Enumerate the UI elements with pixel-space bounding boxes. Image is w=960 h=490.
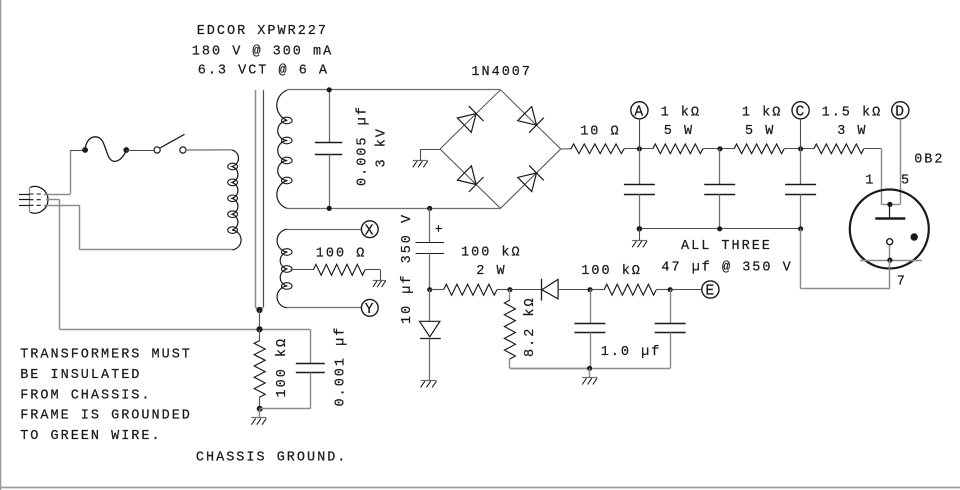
tube cathode stem	[889, 245, 891, 260]
svg-text:180 V @ 300 mA: 180 V @ 300 mA	[192, 44, 333, 59]
svg-text:10 µf 350 V: 10 µf 350 V	[400, 213, 415, 324]
resistor R6 8.2k	[504, 300, 515, 359]
junction bottom rail	[587, 366, 592, 371]
svg-text:100 kΩ: 100 kΩ	[581, 264, 642, 279]
diode D5 lead bottom	[429, 338, 431, 380]
junction R9 bottom	[257, 406, 263, 412]
capacitor C8 0.001uf plates	[296, 363, 325, 365]
wire C6 to R7	[590, 289, 604, 291]
diode D6 cathode bar	[541, 279, 543, 301]
resistor R7 100k	[604, 284, 656, 295]
wire bottom rail ground stem	[589, 368, 591, 377]
transformer T1 6.3V filament winding	[277, 229, 287, 308]
capacitor C2 47uf lead bottom	[639, 194, 641, 229]
diode D2 (top to right)	[518, 107, 537, 126]
svg-text:0.001 µf: 0.001 µf	[334, 326, 349, 407]
svg-text:X: X	[365, 223, 376, 239]
capacitor C7 lead top	[670, 290, 672, 324]
capacitor C2 47uf lead top	[639, 149, 641, 185]
diode D5 lead top	[429, 290, 431, 322]
capacitor C1 0.005uf lead top	[329, 90, 331, 143]
wire frame to rail	[259, 310, 261, 329]
diode D3 (left to bottom)	[457, 166, 476, 185]
capacitor C3 47uf lead top	[719, 149, 721, 185]
junction HV bottom at C1	[327, 206, 332, 211]
wire neutral: plug to primary	[44, 205, 80, 207]
svg-text:ALL THREE: ALL THREE	[681, 239, 772, 254]
svg-text:5: 5	[901, 174, 911, 189]
wire HV top rail	[287, 89, 500, 91]
junction chassis rail	[256, 326, 262, 332]
svg-text:TRANSFORMERS MUST: TRANSFORMERS MUST	[20, 348, 192, 363]
svg-text:100 Ω: 100 Ω	[316, 246, 367, 261]
junction at C7 top	[668, 287, 673, 292]
wire R1 to node A	[624, 148, 653, 150]
capacitor C2 47uf plates	[624, 184, 655, 186]
svg-text:6.3 VCT @ 6 A: 6.3 VCT @ 6 A	[198, 64, 329, 79]
wire R3 to node C	[784, 148, 814, 150]
junction node at C5 bottom	[427, 287, 432, 292]
wire fuse to switch	[126, 150, 154, 152]
svg-text:BE INSULATED: BE INSULATED	[20, 368, 141, 383]
junction node at R5 right	[507, 287, 512, 292]
terminal C	[792, 102, 809, 119]
capacitor C6 lead top	[590, 290, 592, 324]
wire D6 to node E branch	[558, 289, 590, 291]
capacitor C4 47uf plates	[785, 184, 816, 186]
wire to terminal E	[670, 289, 702, 291]
svg-text:1N4007: 1N4007	[471, 65, 532, 80]
switch S1	[154, 147, 160, 153]
tube cathode bar	[860, 260, 922, 262]
svg-text:FRAME IS GROUNDED: FRAME IS GROUNDED	[20, 409, 192, 424]
svg-text:3 kV: 3 kV	[375, 127, 390, 167]
svg-text:E: E	[705, 284, 716, 300]
tube V1 0B2 envelope	[850, 190, 929, 269]
resistor R2 1k 5W	[653, 144, 703, 154]
terminal E	[702, 281, 719, 298]
resistor R8 100 ohm	[313, 264, 365, 275]
ground at bottom rail	[582, 377, 597, 379]
ground chassis	[251, 417, 266, 419]
capacitor C1 0.005uf lead bottom	[329, 154, 331, 208]
wire hot: plug to fuse	[44, 194, 70, 196]
wire node to D6	[510, 289, 542, 291]
capacitor C3 47uf plates	[704, 184, 735, 186]
junction node A	[637, 146, 642, 151]
junction HV bottom at C5	[427, 206, 432, 211]
wire frame to dot	[255, 307, 260, 310]
terminal D	[892, 102, 909, 119]
svg-text:0.005 µf: 0.005 µf	[356, 105, 371, 186]
svg-text:CHASSIS GROUND.: CHASSIS GROUND.	[196, 450, 348, 465]
resistor R5 100k 2W	[444, 284, 497, 295]
wire filament bottom to Y	[287, 307, 361, 309]
wire switch to primary	[186, 149, 232, 151]
svg-text:5 W: 5 W	[664, 124, 694, 139]
svg-text:7: 7	[897, 275, 907, 290]
svg-text:0B2: 0B2	[914, 153, 944, 168]
junction cap rail right	[798, 226, 803, 231]
wire A stub	[639, 119, 641, 149]
svg-text:C: C	[796, 105, 807, 121]
wire R2 to R3	[703, 148, 734, 150]
wire bottom rail	[510, 368, 670, 370]
wire R5 to node	[497, 289, 510, 291]
wire filter cap ground rail	[639, 228, 800, 230]
svg-text:1.0 µf: 1.0 µf	[601, 345, 662, 360]
AC plug P1	[29, 187, 31, 212]
capacitor C8 lead top	[310, 329, 312, 363]
wire filament center tap	[291, 269, 314, 271]
svg-text:8.2 kΩ: 8.2 kΩ	[523, 296, 538, 357]
junction cap rail mid	[717, 226, 722, 231]
capacitor C7 lead bottom	[670, 332, 672, 368]
diode D4 (bottom to right)	[518, 173, 537, 192]
bridge edge bottom-right	[501, 149, 561, 208]
svg-text:Y: Y	[365, 302, 376, 318]
capacitor C1 0.005uf plates	[315, 142, 342, 144]
capacitor C4 47uf lead top	[800, 149, 802, 185]
wire filament top to X	[287, 229, 361, 231]
terminal X	[361, 221, 378, 238]
tube anode stem	[889, 204, 891, 218]
svg-text:100 kΩ: 100 kΩ	[275, 337, 290, 398]
svg-text:47 µf @ 350 V: 47 µf @ 350 V	[661, 261, 792, 276]
wire HV bottom rail	[287, 208, 500, 210]
diode D1 (left to top)	[457, 114, 476, 133]
wire R4 to tube pin 1	[864, 148, 882, 150]
wire green: plug to chassis rail	[46, 199, 60, 201]
svg-text:10 Ω: 10 Ω	[580, 125, 620, 140]
junction node C	[798, 146, 803, 151]
svg-text:3 W: 3 W	[837, 124, 867, 139]
capacitor C4 47uf lead bottom	[800, 194, 802, 229]
junction frame	[256, 307, 262, 313]
junction at C6 top	[587, 287, 592, 292]
svg-text:1 kΩ: 1 kΩ	[742, 105, 782, 120]
capacitor C6 lead bottom	[590, 332, 592, 368]
capacitor C5 10uf lead top	[429, 208, 431, 242]
diode D6	[542, 279, 558, 299]
tube anode plate	[875, 217, 905, 219]
junction node B	[717, 146, 722, 151]
resistor R1 10 ohm	[571, 144, 624, 154]
svg-text:D: D	[895, 105, 906, 121]
capacitor C8 lead bottom	[310, 373, 312, 409]
svg-text:100 kΩ: 100 kΩ	[461, 246, 522, 261]
diode D5	[420, 321, 440, 337]
resistor R6 lead top	[509, 290, 511, 300]
resistor R9 100k	[254, 341, 265, 398]
ground at R8	[373, 280, 386, 282]
svg-text:FROM CHASSIS.: FROM CHASSIS.	[20, 388, 151, 403]
svg-text:A: A	[634, 105, 645, 121]
transformer T1 primary winding	[232, 150, 241, 250]
resistor R4 1.5k 3W	[814, 144, 864, 154]
wire tube pin 7 to cap rail	[889, 260, 891, 289]
resistor R6 lead bottom	[509, 359, 511, 368]
fuse F1	[85, 137, 126, 162]
transformer T1 core	[255, 90, 257, 307]
capacitor C6 1.0uf plates	[574, 323, 605, 325]
tube pin 1 lead	[881, 204, 890, 206]
svg-text:EDCOR XPWR227: EDCOR XPWR227	[197, 24, 328, 39]
tube starter electrode	[887, 239, 893, 245]
bridge edge bottom-left	[440, 149, 501, 208]
wire R9 to ground stem	[259, 409, 261, 418]
wire C stub	[800, 119, 802, 149]
capacitor C3 47uf lead bottom	[719, 194, 721, 229]
capacitor C7 1.0uf plates	[655, 323, 686, 325]
capacitor C5 10uf lead bottom	[429, 253, 431, 290]
svg-text:1: 1	[865, 174, 875, 189]
terminal A	[631, 102, 648, 119]
transformer T1 HV secondary winding	[277, 90, 288, 208]
junction tube anode node	[887, 202, 892, 207]
svg-text:1.5 kΩ: 1.5 kΩ	[822, 105, 883, 120]
bridge edge top-right	[501, 90, 561, 149]
bridge edge top-left	[440, 90, 501, 149]
junction cap rail left	[637, 226, 643, 232]
wire R7 to C7 node	[656, 289, 670, 291]
svg-text:5 W: 5 W	[745, 124, 775, 139]
ground below D5	[421, 380, 437, 382]
wire bridge to R1	[561, 148, 571, 150]
svg-text:2 W: 2 W	[476, 264, 506, 279]
svg-text:1 kΩ: 1 kΩ	[661, 105, 701, 120]
capacitor C5 10uf plates	[416, 242, 444, 244]
terminal Y	[361, 299, 378, 316]
junction HV top at C1	[327, 87, 332, 92]
wire R8 to ground	[365, 269, 380, 271]
resistor R3 1k 5W	[734, 144, 784, 154]
ground at filter rail	[632, 240, 647, 242]
wire D to tube pin 5	[900, 119, 902, 204]
wire bridge negative to ground	[420, 149, 440, 151]
resistor R9 lead top	[259, 329, 261, 340]
resistor R9 lead bottom	[259, 397, 261, 409]
junction tube cathode	[887, 258, 892, 263]
ground at bridge	[413, 160, 428, 162]
tube pin 5 lead	[890, 204, 900, 206]
label plus	[436, 228, 443, 230]
wire rail to ground stem	[639, 229, 641, 241]
tube gas dot	[911, 233, 918, 240]
wire C5 to R5	[430, 289, 444, 291]
svg-text:TO GREEN WIRE.: TO GREEN WIRE.	[20, 429, 161, 444]
